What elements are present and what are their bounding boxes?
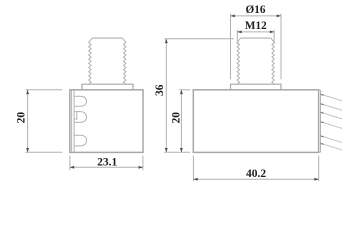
wire: left view flange — [82, 84, 133, 90]
wire: right view flange — [231, 84, 282, 90]
node: left view terminal tab 2 — [74, 112, 86, 123]
wire: left view body outline — [70, 90, 143, 153]
wire: right view thread right edge — [271, 38, 275, 84]
svg-text:20: 20 — [170, 112, 182, 124]
svg-text:M12: M12 — [245, 20, 267, 32]
wire: right view rear strip line — [320, 90, 322, 152]
dimension 40.2 (right view width) — [193, 156, 318, 181]
dimension 23.1 (left view width) — [70, 156, 143, 171]
pin 4 — [321, 122, 342, 129]
node: left view terminal tab 2 inner step — [74, 112, 77, 119]
pin 1 — [321, 94, 342, 101]
dimension 20 (right view body height) — [164, 90, 190, 153]
node: left view terminal tab 1 — [74, 96, 86, 106]
svg-text:23.1: 23.1 — [97, 157, 117, 169]
pin 6 — [321, 143, 342, 150]
dimension Ø16 (flange diameter) — [231, 14, 282, 80]
svg-text:20: 20 — [16, 112, 28, 124]
svg-text:40.2: 40.2 — [246, 168, 266, 180]
pin 3 — [321, 112, 342, 119]
svg-text:36: 36 — [154, 84, 166, 96]
wire: left view shaft top and chamfer — [92, 37, 122, 39]
dimension 36 (overall height) — [164, 39, 234, 153]
wire: left view thread right edge — [122, 38, 126, 84]
dimension 20 (left view height) — [25, 90, 62, 153]
node: left view terminal tab 3 — [74, 135, 86, 146]
wire: left view inner vertical strip lines — [72, 90, 75, 152]
wire: right view thread left edge — [237, 38, 241, 84]
svg-text:Ø16: Ø16 — [246, 4, 266, 16]
wire: right view body outline — [193, 90, 318, 153]
wire: left view thread left edge — [89, 38, 93, 84]
dimension M12 (thread size) — [237, 30, 274, 44]
wire: right view shaft top — [241, 37, 271, 39]
pin 2 — [321, 104, 342, 111]
pin 5 — [321, 136, 342, 143]
